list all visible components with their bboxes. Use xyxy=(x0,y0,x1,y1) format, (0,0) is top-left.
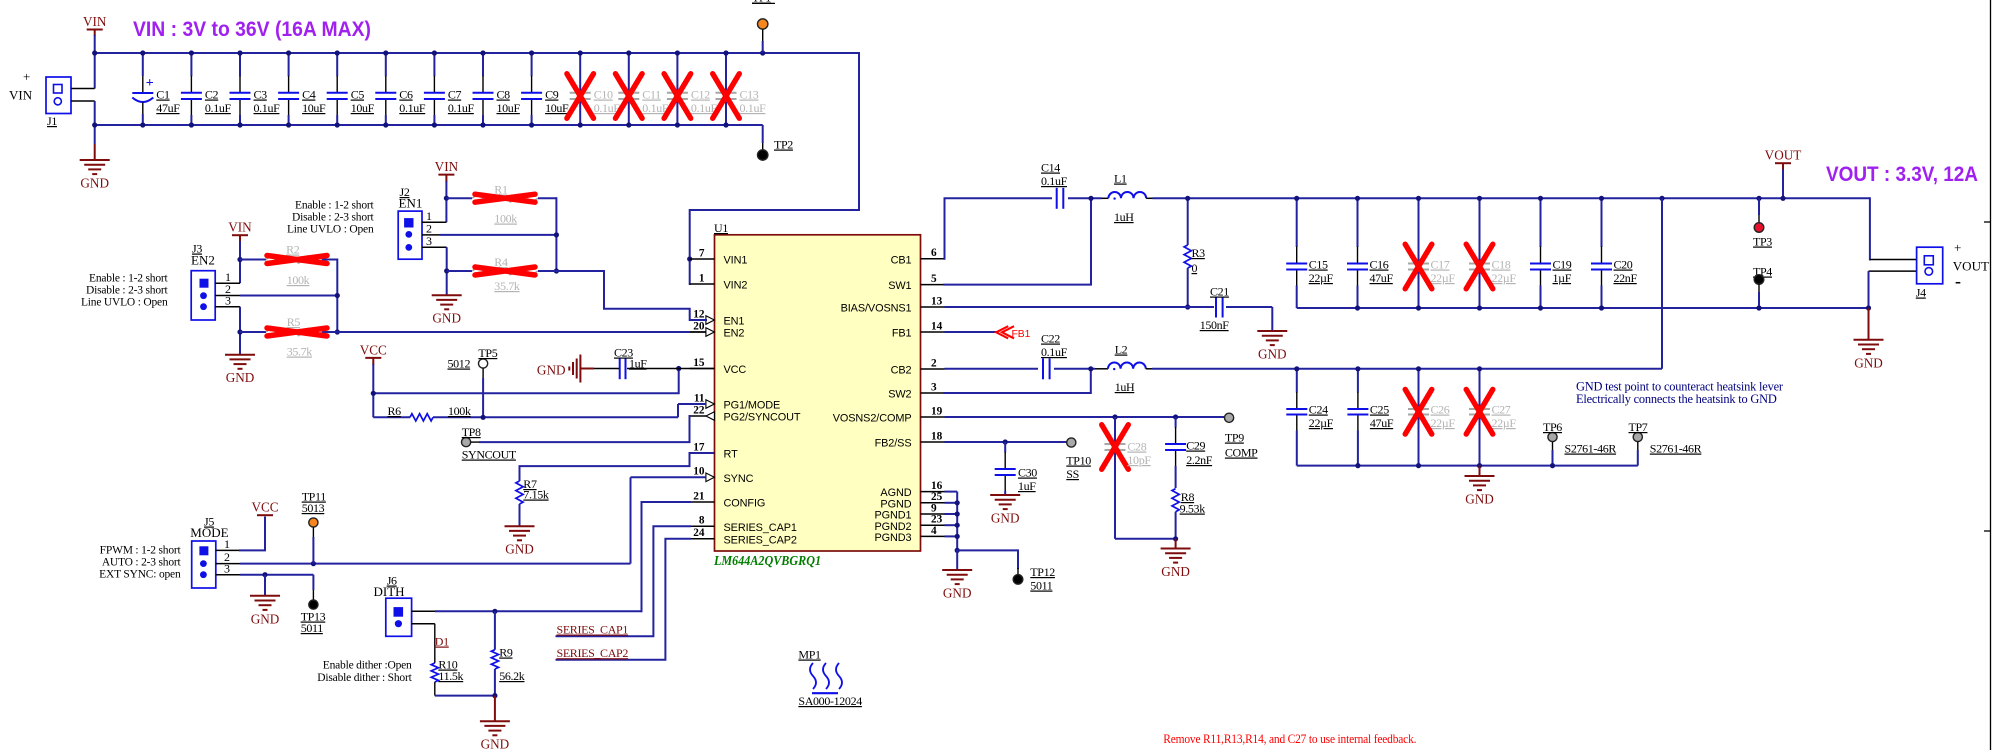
svg-text:5013: 5013 xyxy=(302,501,325,515)
svg-text:23: 23 xyxy=(931,514,943,526)
svg-text:C18: C18 xyxy=(1492,258,1511,272)
svg-text:Line UVLO : Open: Line UVLO : Open xyxy=(287,224,374,236)
svg-text:C19: C19 xyxy=(1553,258,1572,272)
svg-text:11: 11 xyxy=(694,392,705,404)
svg-text:21: 21 xyxy=(693,490,705,502)
svg-text:TP12: TP12 xyxy=(1030,565,1055,579)
svg-text:Disable dither : Short: Disable dither : Short xyxy=(317,672,412,684)
svg-text:0.1uF: 0.1uF xyxy=(1041,174,1068,188)
svg-text:VIN: VIN xyxy=(228,220,252,235)
svg-text:14: 14 xyxy=(931,320,943,332)
svg-text:PGND: PGND xyxy=(880,498,911,510)
svg-text:GND: GND xyxy=(505,542,534,557)
svg-text:2: 2 xyxy=(931,357,937,369)
svg-text:Disable : 2-3 short: Disable : 2-3 short xyxy=(292,212,374,224)
svg-text:3: 3 xyxy=(426,234,432,248)
svg-text:C14: C14 xyxy=(1041,161,1060,175)
svg-text:EN1: EN1 xyxy=(724,316,745,328)
svg-text:SERIES_CAP2: SERIES_CAP2 xyxy=(724,534,797,546)
svg-text:EN1: EN1 xyxy=(399,196,423,211)
svg-text:SERIES_CAP1: SERIES_CAP1 xyxy=(557,623,629,637)
svg-text:5: 5 xyxy=(931,273,937,285)
svg-text:6: 6 xyxy=(931,247,937,259)
svg-text:VIN : 3V to 36V (16A MAX): VIN : 3V to 36V (16A MAX) xyxy=(133,18,371,41)
svg-text:VIN: VIN xyxy=(83,14,107,29)
svg-text:U1: U1 xyxy=(714,221,728,235)
svg-text:Enable : 1-2 short: Enable : 1-2 short xyxy=(295,200,374,212)
svg-text:9.53k: 9.53k xyxy=(1180,502,1206,516)
svg-text:R5: R5 xyxy=(287,315,301,329)
svg-text:VIN: VIN xyxy=(9,88,33,103)
svg-text:SERIES_CAP2: SERIES_CAP2 xyxy=(557,646,629,660)
svg-text:GND: GND xyxy=(1854,355,1883,370)
svg-text:L1: L1 xyxy=(1114,172,1127,186)
svg-text:Remove R11,R13,R14, and C27 t: Remove R11,R13,R14, and C27 to use inter… xyxy=(1163,732,1416,746)
svg-text:10pF: 10pF xyxy=(1127,453,1151,467)
svg-text:12: 12 xyxy=(693,308,705,320)
svg-text:1uH: 1uH xyxy=(1114,210,1134,224)
svg-text:22µF: 22µF xyxy=(1309,271,1334,285)
svg-text:RT: RT xyxy=(724,449,739,461)
svg-text:SS: SS xyxy=(1066,467,1079,481)
svg-text:13: 13 xyxy=(931,295,943,307)
svg-text:1uF: 1uF xyxy=(629,357,647,371)
svg-text:9: 9 xyxy=(931,502,937,514)
svg-text:5011: 5011 xyxy=(1030,579,1053,593)
svg-text:C8: C8 xyxy=(497,88,511,102)
svg-text:C9: C9 xyxy=(545,88,559,102)
svg-text:10uF: 10uF xyxy=(545,101,569,115)
svg-text:18: 18 xyxy=(931,430,943,442)
svg-text:22µF: 22µF xyxy=(1309,416,1334,430)
svg-text:GND: GND xyxy=(1258,347,1287,362)
svg-text:J4: J4 xyxy=(1916,286,1926,300)
svg-text:24: 24 xyxy=(693,527,705,539)
svg-text:C12: C12 xyxy=(691,88,710,102)
svg-text:FB1: FB1 xyxy=(892,328,912,340)
svg-text:25: 25 xyxy=(931,491,943,503)
svg-text:C1: C1 xyxy=(156,88,170,102)
svg-text:EXT SYNC: open: EXT SYNC: open xyxy=(99,569,181,581)
svg-text:PGND3: PGND3 xyxy=(874,532,911,544)
svg-text:47uF: 47uF xyxy=(1370,271,1394,285)
svg-text:R2: R2 xyxy=(286,243,300,257)
svg-text:17: 17 xyxy=(693,441,705,453)
svg-text:TP8: TP8 xyxy=(462,425,481,439)
svg-text:100k: 100k xyxy=(448,404,471,418)
svg-text:VOSNS2/COMP: VOSNS2/COMP xyxy=(833,413,912,425)
svg-text:11.5k: 11.5k xyxy=(438,669,463,683)
svg-text:22µF: 22µF xyxy=(1492,416,1517,430)
svg-text:4: 4 xyxy=(931,525,937,537)
svg-text:1uF: 1uF xyxy=(1018,479,1036,493)
svg-text:0.1uF: 0.1uF xyxy=(399,101,426,115)
svg-text:C4: C4 xyxy=(302,88,316,102)
svg-text:EN2: EN2 xyxy=(724,328,745,340)
svg-text:EN2: EN2 xyxy=(191,253,215,268)
svg-text:VOUT: VOUT xyxy=(1765,148,1802,163)
svg-text:VCC: VCC xyxy=(724,364,747,376)
svg-text:10: 10 xyxy=(693,466,705,478)
svg-text:SA000-12024: SA000-12024 xyxy=(798,694,862,708)
svg-text:C26: C26 xyxy=(1431,403,1450,417)
svg-text:22µF: 22µF xyxy=(1492,271,1517,285)
svg-text:5011: 5011 xyxy=(301,621,324,635)
svg-text:TP6: TP6 xyxy=(1543,420,1562,434)
svg-text:56.2k: 56.2k xyxy=(499,669,525,683)
svg-text:SYNC: SYNC xyxy=(724,473,754,485)
svg-text:TP3: TP3 xyxy=(1753,235,1772,249)
svg-text:7: 7 xyxy=(699,247,705,259)
svg-text:Enable dither :Open: Enable dither :Open xyxy=(323,660,412,672)
svg-text:C28: C28 xyxy=(1127,440,1146,454)
svg-text:TP7: TP7 xyxy=(1629,420,1648,434)
svg-text:VOUT : 3.3V, 12A: VOUT : 3.3V, 12A xyxy=(1826,163,1978,186)
svg-text:C6: C6 xyxy=(399,88,413,102)
svg-text:VIN: VIN xyxy=(435,159,459,174)
svg-text:0.1uF: 0.1uF xyxy=(448,101,475,115)
svg-text:CB2: CB2 xyxy=(891,365,912,377)
svg-text:R4: R4 xyxy=(494,255,508,269)
svg-text:L2: L2 xyxy=(1115,343,1128,357)
svg-text:TP9: TP9 xyxy=(1225,431,1244,445)
svg-text:10uF: 10uF xyxy=(351,101,375,115)
svg-text:C20: C20 xyxy=(1614,258,1633,272)
svg-text:0.1uF: 0.1uF xyxy=(205,101,232,115)
svg-text:C15: C15 xyxy=(1309,258,1328,272)
svg-text:GND: GND xyxy=(226,370,255,385)
svg-text:D1: D1 xyxy=(435,635,449,649)
svg-text:1: 1 xyxy=(224,537,230,551)
svg-text:+: + xyxy=(146,76,154,91)
svg-text:FPWM : 1-2 short: FPWM : 1-2 short xyxy=(100,545,182,557)
svg-text:C17: C17 xyxy=(1431,258,1450,272)
svg-text:C30: C30 xyxy=(1018,466,1037,480)
svg-text:5012: 5012 xyxy=(448,357,471,371)
svg-text:GND: GND xyxy=(432,311,461,326)
svg-text:8: 8 xyxy=(699,515,705,527)
svg-text:C25: C25 xyxy=(1370,403,1389,417)
svg-text:22: 22 xyxy=(693,404,705,416)
svg-text:Enable : 1-2 short: Enable : 1-2 short xyxy=(89,273,168,285)
svg-text:GND: GND xyxy=(1465,492,1494,507)
svg-text:AUTO : 2-3 short: AUTO : 2-3 short xyxy=(102,557,182,569)
svg-text:20: 20 xyxy=(693,320,705,332)
svg-text:VCC: VCC xyxy=(251,500,278,515)
svg-text:C22: C22 xyxy=(1041,332,1060,346)
svg-text:GND: GND xyxy=(943,586,972,601)
svg-text:0.1uF: 0.1uF xyxy=(254,101,281,115)
svg-text:100k: 100k xyxy=(494,212,517,226)
svg-text:GND: GND xyxy=(991,511,1020,526)
svg-text:22µF: 22µF xyxy=(1431,416,1456,430)
svg-text:7.15k: 7.15k xyxy=(523,488,549,502)
svg-text:C2: C2 xyxy=(205,88,219,102)
svg-text:CB1: CB1 xyxy=(891,254,912,266)
svg-text:1: 1 xyxy=(699,272,705,284)
svg-text:PG1/MODE: PG1/MODE xyxy=(724,400,781,412)
svg-text:PGND1: PGND1 xyxy=(874,510,911,522)
svg-text:C5: C5 xyxy=(351,88,365,102)
svg-text:C13: C13 xyxy=(740,88,759,102)
svg-text:16: 16 xyxy=(931,480,943,492)
svg-text:C27: C27 xyxy=(1492,403,1511,417)
svg-text:TP5: TP5 xyxy=(478,346,497,360)
svg-text:FB1: FB1 xyxy=(1012,329,1031,340)
svg-text:R9: R9 xyxy=(499,646,513,660)
svg-text:47uF: 47uF xyxy=(1370,416,1394,430)
svg-text:MODE: MODE xyxy=(190,525,228,540)
svg-text:35.7k: 35.7k xyxy=(494,279,520,293)
svg-text:GND: GND xyxy=(481,737,510,750)
svg-text:GND: GND xyxy=(80,176,109,191)
svg-text:0.1uF: 0.1uF xyxy=(740,101,767,115)
svg-text:35.7k: 35.7k xyxy=(287,345,313,359)
svg-text:SYNCOUT: SYNCOUT xyxy=(462,448,517,462)
svg-text:C21: C21 xyxy=(1210,285,1229,299)
svg-text:Line UVLO : Open: Line UVLO : Open xyxy=(81,297,168,309)
svg-text:0.1uF: 0.1uF xyxy=(1041,345,1068,359)
svg-text:-: - xyxy=(1955,271,1961,291)
svg-text:PGND2: PGND2 xyxy=(874,521,911,533)
svg-text:R3: R3 xyxy=(1192,246,1206,260)
svg-text:19: 19 xyxy=(931,405,943,417)
svg-text:FB2/SS: FB2/SS xyxy=(875,438,912,450)
svg-text:C10: C10 xyxy=(594,88,613,102)
svg-text:COMP: COMP xyxy=(1225,446,1258,460)
svg-text:TP10: TP10 xyxy=(1066,454,1091,468)
svg-text:150nF: 150nF xyxy=(1200,318,1230,332)
svg-text:J1: J1 xyxy=(47,114,57,128)
svg-text:SW1: SW1 xyxy=(888,280,911,292)
svg-text:SW2: SW2 xyxy=(888,389,911,401)
svg-text:S2761-46R: S2761-46R xyxy=(1650,442,1702,456)
svg-text:BIAS/VOSNS1: BIAS/VOSNS1 xyxy=(841,303,912,315)
svg-text:+: + xyxy=(23,69,30,84)
svg-text:22µF: 22µF xyxy=(1431,271,1456,285)
svg-text:GND: GND xyxy=(251,611,280,626)
svg-text:TP2: TP2 xyxy=(774,138,793,152)
svg-text:C11: C11 xyxy=(642,88,661,102)
svg-text:VCC: VCC xyxy=(360,342,387,357)
svg-text:DITH: DITH xyxy=(374,584,405,599)
svg-text:2.2nF: 2.2nF xyxy=(1186,453,1213,467)
svg-text:C3: C3 xyxy=(254,88,268,102)
svg-text:47uF: 47uF xyxy=(156,101,180,115)
svg-text:GND: GND xyxy=(537,363,566,378)
svg-text:S2761-46R: S2761-46R xyxy=(1565,442,1617,456)
svg-text:C24: C24 xyxy=(1309,403,1328,417)
svg-text:LM644A2QVBGRQ1: LM644A2QVBGRQ1 xyxy=(713,553,821,568)
svg-text:Disable : 2-3 short: Disable : 2-3 short xyxy=(86,285,168,297)
svg-text:+: + xyxy=(1954,240,1961,255)
svg-text:R6: R6 xyxy=(388,404,402,418)
svg-text:10uF: 10uF xyxy=(302,101,326,115)
svg-text:10uF: 10uF xyxy=(497,101,521,115)
svg-text:C7: C7 xyxy=(448,88,462,102)
svg-text:AGND: AGND xyxy=(880,487,911,499)
svg-text:0: 0 xyxy=(1192,261,1198,275)
svg-text:100k: 100k xyxy=(287,273,310,287)
svg-text:22nF: 22nF xyxy=(1614,271,1638,285)
svg-text:SERIES_CAP1: SERIES_CAP1 xyxy=(724,522,797,534)
svg-text:CONFIG: CONFIG xyxy=(724,498,766,510)
svg-text:MP1: MP1 xyxy=(798,648,821,662)
svg-text:C29: C29 xyxy=(1186,439,1205,453)
svg-text:3: 3 xyxy=(931,381,937,393)
svg-text:C16: C16 xyxy=(1370,258,1389,272)
svg-text:PG2/SYNCOUT: PG2/SYNCOUT xyxy=(724,412,801,424)
svg-text:VIN1: VIN1 xyxy=(724,255,748,267)
svg-text:VIN2: VIN2 xyxy=(724,280,748,292)
svg-text:1µF: 1µF xyxy=(1553,271,1572,285)
svg-text:1uH: 1uH xyxy=(1115,380,1135,394)
svg-text:Electrically connects the heat: Electrically connects the heatsink to GN… xyxy=(1576,392,1777,406)
svg-text:15: 15 xyxy=(693,357,705,369)
svg-text:GND: GND xyxy=(1161,564,1190,579)
